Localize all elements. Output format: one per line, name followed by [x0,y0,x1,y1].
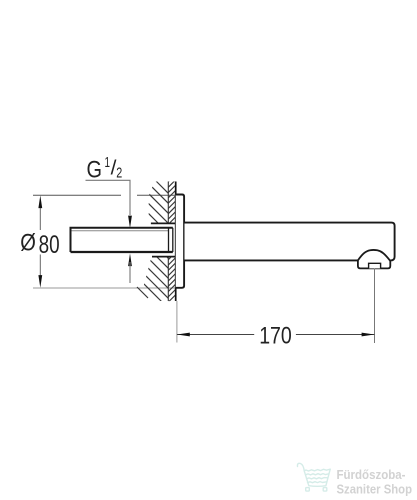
flange (escutcheon) [176,195,184,288]
O80 arrow up [38,195,42,208]
svg-text:80: 80 [39,231,60,259]
arrow up to pipe bottom [128,253,132,266]
pipe thread thin line [71,230,168,232]
dimension 170 extension line left [176,301,178,343]
svg-text:Szaniter Shop: Szaniter Shop [337,482,413,496]
pipe (threaded inlet) [71,228,173,252]
dimension O80 extension line bottom [33,287,176,289]
spout body [185,223,395,261]
logo text [337,468,413,496]
svg-text:1: 1 [105,154,111,171]
mouthpiece (aerator housing) [358,250,390,268]
wall hole top edge [151,222,176,224]
wall hatch lower block [130,220,200,340]
pipe body outline [71,228,173,252]
svg-text:170: 170 [259,323,292,350]
dimension 170 extension line right [374,269,376,343]
dimension O80 extension line top [33,194,121,196]
stray hatch lines bottom left [137,287,148,298]
170 arrow right [362,333,375,337]
wall hatch upper band [160,165,185,232]
wall face line [175,182,177,302]
leader line G1/2 [86,180,131,215]
text O80 [20,229,59,259]
wall hatch lower band [160,243,185,310]
label G1/2 [87,154,123,184]
pipe end cap verticals [168,228,170,252]
svg-text:Ø: Ø [20,229,36,256]
wall inner vertical line [167,182,169,224]
dimension O80 line [39,207,41,230]
O80 arrow down [38,275,42,288]
wall hole bottom edge [152,256,176,258]
svg-text:Fürdőszoba-: Fürdőszoba- [337,468,406,482]
dimension 170 line [177,334,254,336]
170 arrow left [177,333,190,337]
arrow down to pipe top [128,216,132,229]
svg-text:G: G [87,157,103,184]
svg-text:2: 2 [116,165,122,182]
logo cart icon [297,463,330,491]
wall hatch upper block [140,165,200,265]
aerator outlet [369,263,381,268]
